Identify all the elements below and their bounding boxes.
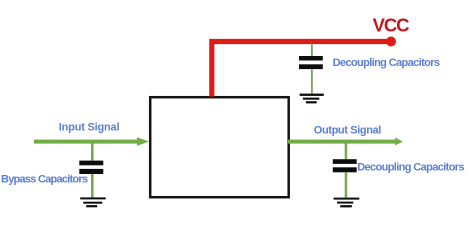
- svg-text:VCC: VCC: [373, 15, 409, 36]
- svg-text:Input Signal: Input Signal: [59, 122, 120, 134]
- svg-text:Decoupling Capacitors: Decoupling Capacitors: [357, 161, 464, 173]
- svg-text:Decoupling Capacitors: Decoupling Capacitors: [333, 57, 440, 69]
- svg-text:Bypass Capacitors: Bypass Capacitors: [1, 173, 88, 185]
- svg-text:Output Signal: Output Signal: [314, 125, 381, 137]
